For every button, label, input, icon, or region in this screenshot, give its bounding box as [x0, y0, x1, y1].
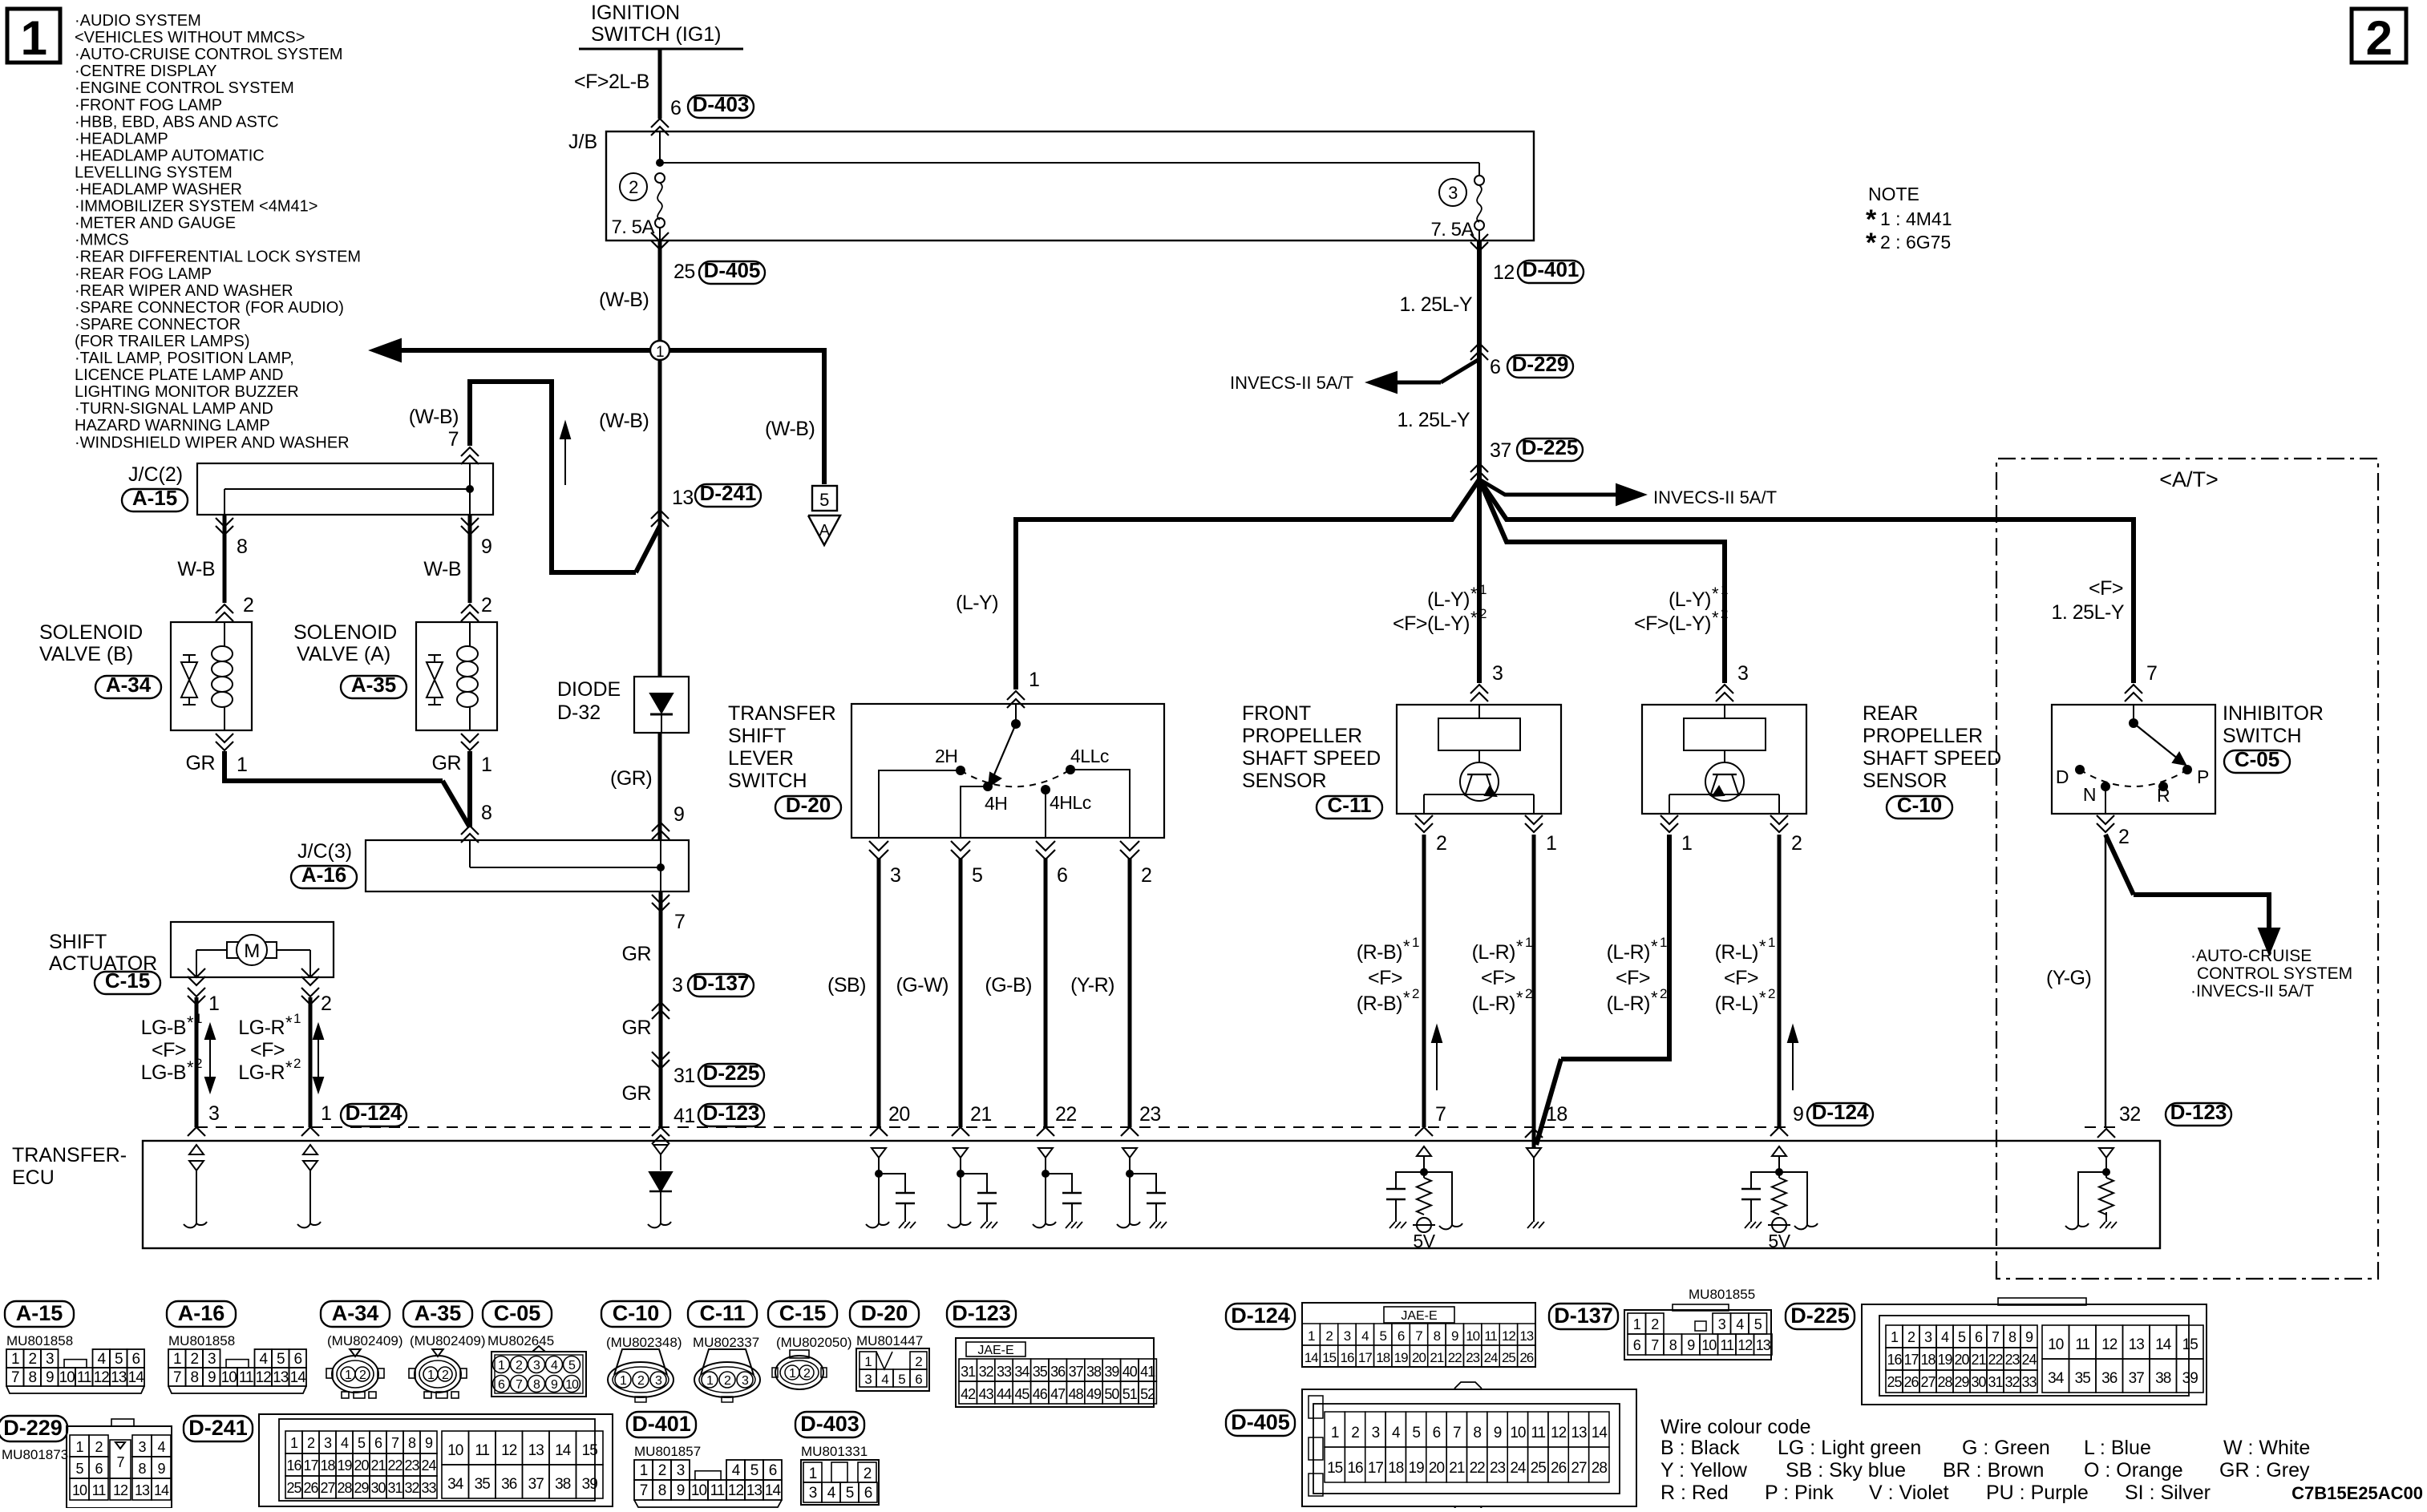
svg-text:HAZARD WARNING LAMP: HAZARD WARNING LAMP: [75, 417, 270, 435]
svg-text:A-35: A-35: [351, 673, 396, 697]
svg-text:44: 44: [997, 1386, 1012, 1402]
svg-text:·FRONT FOG LAMP: ·FRONT FOG LAMP: [75, 96, 222, 114]
svg-text:(W-B): (W-B): [599, 410, 649, 432]
svg-text:5: 5: [1754, 1316, 1762, 1332]
svg-text:1: 1: [1721, 582, 1728, 597]
svg-text:12: 12: [501, 1442, 517, 1459]
C-10 transistor: [1705, 762, 1744, 801]
svg-text:(R-B): (R-B): [1357, 941, 1402, 964]
svg-text:2: 2: [293, 1056, 301, 1071]
connector drawing C-05: [483, 1301, 552, 1327]
svg-text:18: 18: [1388, 1460, 1404, 1477]
svg-text:7: 7: [516, 1378, 523, 1392]
svg-text:LG-B: LG-B: [141, 1061, 186, 1084]
C-10 pin 1 output: [1660, 815, 1678, 824]
svg-text:37: 37: [528, 1476, 544, 1493]
svg-text:2: 2: [195, 1056, 202, 1071]
ECU internal sensor-switch pin: [953, 1148, 968, 1158]
svg-text:17: 17: [1903, 1352, 1919, 1368]
svg-text:1: 1: [321, 1102, 331, 1125]
svg-text:14: 14: [555, 1442, 572, 1459]
svg-text:29: 29: [1954, 1374, 1969, 1390]
svg-text:4: 4: [1361, 1328, 1369, 1344]
svg-text:1: 1: [1479, 582, 1487, 597]
svg-text:PROPELLER: PROPELLER: [1863, 725, 1983, 747]
svg-text:6: 6: [1490, 356, 1500, 378]
svg-text:SHIFT: SHIFT: [728, 725, 786, 747]
svg-text:13: 13: [528, 1442, 544, 1459]
connector drawing C-10: [601, 1301, 670, 1327]
svg-text:A: A: [819, 522, 831, 540]
svg-text:(L-Y): (L-Y): [1427, 588, 1470, 611]
svg-text:W-B: W-B: [177, 558, 215, 580]
wire node1 to offpage 5A: [669, 350, 824, 484]
svg-text:(L-R): (L-R): [1472, 993, 1515, 1015]
inhibitor dashed arc: [2080, 770, 2187, 786]
svg-text:DIODE: DIODE: [557, 678, 621, 701]
svg-text:(MU802348): (MU802348): [606, 1335, 682, 1350]
svg-text:32: 32: [2004, 1374, 2020, 1390]
svg-text:Y : Yellow: Y : Yellow: [1660, 1459, 1748, 1482]
svg-text:1: 1: [208, 993, 219, 1015]
svg-text:7: 7: [1651, 1337, 1659, 1353]
connector drawing D-229: [0, 1416, 67, 1441]
svg-text:3: 3: [533, 1359, 540, 1373]
ECU internal actuator pin: [189, 1145, 204, 1154]
svg-text:6: 6: [95, 1461, 103, 1477]
svg-text:25: 25: [1502, 1350, 1515, 1365]
svg-text:C-11: C-11: [699, 1301, 745, 1325]
svg-text:J/B: J/B: [568, 131, 597, 153]
svg-text:1. 25L-Y: 1. 25L-Y: [2051, 601, 2124, 624]
svg-text:A-16: A-16: [301, 863, 346, 887]
svg-text:9: 9: [481, 536, 491, 558]
svg-text:33: 33: [421, 1480, 436, 1496]
svg-text:·MMCS: ·MMCS: [75, 232, 129, 249]
svg-text:C7B15E25AC00: C7B15E25AC00: [2291, 1483, 2423, 1503]
svg-text:4HLc: 4HLc: [1050, 792, 1091, 813]
svg-text:R: R: [2157, 785, 2170, 806]
svg-text:GR: GR: [622, 1017, 652, 1039]
svg-text:MU801331: MU801331: [801, 1444, 868, 1459]
svg-text:A-15: A-15: [132, 486, 177, 510]
C-10 inner bottom bus: [1669, 794, 1779, 795]
svg-text:*: *: [1712, 608, 1719, 628]
svg-text:J/C(2): J/C(2): [128, 463, 183, 486]
svg-text:3: 3: [864, 1372, 872, 1387]
svg-text:10: 10: [2048, 1336, 2064, 1353]
svg-text:1: 1: [195, 1011, 202, 1026]
svg-text:·SPARE CONNECTOR: ·SPARE CONNECTOR: [75, 316, 241, 334]
svg-text:1: 1: [656, 344, 664, 361]
svg-text:7: 7: [1453, 1425, 1461, 1441]
svg-text:11: 11: [1531, 1425, 1545, 1441]
wire W-B backbone: [658, 360, 662, 677]
svg-text:·REAR WIPER AND WASHER: ·REAR WIPER AND WASHER: [75, 282, 293, 300]
svg-text:31: 31: [387, 1480, 402, 1496]
svg-text:11: 11: [710, 1482, 725, 1499]
svg-text:*: *: [1516, 988, 1523, 1008]
svg-text:2: 2: [359, 1368, 366, 1382]
svg-text:5: 5: [1412, 1425, 1420, 1441]
svg-text:W : White: W : White: [2223, 1437, 2310, 1459]
svg-text:41: 41: [1140, 1364, 1155, 1380]
switch output pins 3 5 6 2: [869, 841, 888, 851]
svg-text:12: 12: [1493, 261, 1515, 284]
svg-text:24: 24: [1484, 1350, 1498, 1365]
svg-text:SENSOR: SENSOR: [1863, 770, 1948, 792]
svg-text:31: 31: [673, 1065, 695, 1087]
svg-text:2: 2: [915, 1354, 922, 1369]
up arrow beside hook: [564, 427, 566, 485]
svg-text:37: 37: [2129, 1370, 2145, 1387]
svg-text:D-229: D-229: [3, 1416, 63, 1440]
svg-text:(MU802409): (MU802409): [410, 1333, 486, 1348]
svg-text:10: 10: [565, 1378, 579, 1392]
svg-text:<F>: <F>: [1616, 967, 1650, 989]
svg-text:18: 18: [320, 1457, 335, 1474]
svg-text:33: 33: [997, 1364, 1012, 1380]
svg-text:2: 2: [1721, 606, 1728, 621]
svg-text:26: 26: [1551, 1460, 1567, 1477]
svg-text:14: 14: [1592, 1425, 1608, 1441]
svg-text:12: 12: [1551, 1425, 1567, 1441]
svg-text:24: 24: [1510, 1460, 1527, 1477]
svg-text:1: 1: [427, 1368, 435, 1382]
svg-text:5: 5: [898, 1372, 905, 1387]
svg-text:12: 12: [1502, 1328, 1515, 1344]
svg-text:D-32: D-32: [557, 701, 601, 724]
connector drawing D-137: [1549, 1304, 1618, 1329]
svg-text:(L-R): (L-R): [1607, 993, 1650, 1015]
svg-text:MU802645: MU802645: [487, 1333, 554, 1348]
svg-text:<F>: <F>: [2089, 577, 2123, 600]
svg-text:13: 13: [2129, 1336, 2145, 1353]
inhibitor pivot and arm: [2129, 718, 2138, 728]
svg-text:6: 6: [1398, 1328, 1405, 1344]
svg-text:36: 36: [2101, 1370, 2118, 1387]
svg-text:(R-L): (R-L): [1715, 941, 1758, 964]
svg-text:12: 12: [2101, 1336, 2118, 1353]
switch contacts: [956, 766, 965, 775]
svg-text:1: 1: [1660, 935, 1667, 950]
svg-text:17: 17: [303, 1457, 318, 1474]
svg-text:6: 6: [864, 1485, 872, 1502]
svg-text:3: 3: [208, 1102, 219, 1125]
svg-text:18: 18: [1546, 1103, 1567, 1126]
svg-text:*: *: [285, 1057, 293, 1077]
svg-text:10: 10: [691, 1482, 707, 1499]
svg-text:D-123: D-123: [952, 1301, 1011, 1325]
svg-text:20: 20: [354, 1457, 369, 1474]
svg-text:C-10: C-10: [1897, 793, 1942, 817]
svg-text:*: *: [1712, 584, 1719, 604]
svg-text:33: 33: [2021, 1374, 2037, 1390]
svg-text:7. 5A: 7. 5A: [611, 216, 654, 238]
svg-text:16: 16: [286, 1457, 301, 1474]
svg-text:3: 3: [1718, 1316, 1726, 1332]
svg-text:3: 3: [46, 1351, 54, 1368]
svg-text:6: 6: [1433, 1425, 1441, 1441]
ECU internal pin 32 resistor: [2099, 1148, 2114, 1158]
branch to D-20 switch: [1016, 479, 1479, 689]
svg-text:1: 1: [1768, 935, 1775, 950]
svg-text:1: 1: [173, 1351, 181, 1368]
J/C(2) pin 8 output: [216, 518, 233, 527]
svg-text:2: 2: [629, 177, 638, 197]
up-down arrow 2: [318, 1031, 319, 1085]
connector drawing D-123: [947, 1301, 1016, 1327]
svg-text:5V: 5V: [1768, 1231, 1790, 1251]
svg-text:8: 8: [533, 1378, 540, 1392]
C-11 transistor: [1460, 762, 1499, 801]
svg-text:10: 10: [1510, 1425, 1526, 1441]
ECU pin 18: [1525, 1129, 1543, 1138]
svg-text:1: 1: [1633, 1316, 1641, 1332]
svg-text:·HEADLAMP: ·HEADLAMP: [75, 130, 168, 148]
svg-text:3: 3: [324, 1435, 332, 1451]
C-11 inner element: [1438, 718, 1520, 750]
svg-text:(W-B): (W-B): [409, 406, 459, 428]
svg-text:10: 10: [221, 1369, 237, 1386]
svg-text:D-20: D-20: [861, 1301, 908, 1325]
svg-text:14: 14: [128, 1369, 145, 1386]
svg-text:2 : 6G75: 2 : 6G75: [1880, 232, 1951, 253]
page marker 1: [7, 9, 60, 63]
wire into J/B: [659, 131, 661, 163]
svg-text:(G-W): (G-W): [896, 974, 949, 997]
svg-text:SWITCH: SWITCH: [728, 770, 807, 792]
svg-text:14: 14: [290, 1369, 307, 1386]
svg-text:2: 2: [2118, 826, 2129, 848]
svg-text:1: 1: [11, 1351, 19, 1368]
svg-text:SI : Silver: SI : Silver: [2125, 1482, 2211, 1504]
branch to inhibitor switch: [1479, 479, 2134, 585]
svg-text:D-123: D-123: [703, 1101, 760, 1125]
svg-text:C-10: C-10: [613, 1301, 660, 1325]
ECU internal actuator pin: [303, 1145, 318, 1154]
svg-text:(Y-R): (Y-R): [1070, 974, 1114, 997]
svg-text:30: 30: [1971, 1374, 1986, 1390]
svg-text:V : Violet: V : Violet: [1869, 1482, 1949, 1504]
svg-text:12: 12: [113, 1482, 128, 1498]
svg-text:4H: 4H: [985, 793, 1007, 814]
C-11 inner bottom bus: [1424, 794, 1534, 795]
svg-text:28: 28: [1937, 1374, 1952, 1390]
svg-text:7: 7: [1992, 1329, 2000, 1345]
svg-text:2: 2: [321, 993, 331, 1015]
svg-text:8: 8: [1669, 1337, 1677, 1353]
svg-text:11: 11: [77, 1369, 91, 1386]
svg-text:LG : Light green: LG : Light green: [1778, 1437, 1921, 1459]
svg-text:A-35: A-35: [415, 1301, 462, 1325]
svg-text:LG-R: LG-R: [238, 1061, 285, 1084]
svg-text:9: 9: [1793, 1103, 1803, 1126]
junction connector J/C(2) A-15: [197, 463, 493, 515]
svg-text:<F>(L-Y): <F>(L-Y): [1634, 612, 1711, 635]
svg-text:41: 41: [673, 1105, 695, 1127]
svg-text:(GR): (GR): [610, 767, 652, 790]
svg-text:20: 20: [888, 1103, 910, 1126]
svg-text:27: 27: [320, 1480, 335, 1496]
svg-text:4: 4: [1736, 1316, 1744, 1332]
svg-text:(Y-G): (Y-G): [2046, 967, 2091, 989]
valve A GR wire: [467, 751, 472, 827]
svg-text:·AUDIO SYSTEM: ·AUDIO SYSTEM: [75, 12, 201, 30]
svg-text:8: 8: [658, 1482, 666, 1499]
svg-text:12: 12: [1737, 1337, 1753, 1353]
svg-text:13: 13: [1519, 1328, 1533, 1344]
svg-text:(L-Y): (L-Y): [1669, 588, 1711, 611]
svg-text:6: 6: [498, 1378, 505, 1392]
ECU internal sensor-switch pin: [1038, 1148, 1053, 1158]
svg-text:D-401: D-401: [1523, 257, 1580, 281]
svg-text:1: 1: [1681, 832, 1692, 855]
svg-text:14: 14: [1305, 1350, 1318, 1365]
svg-text:1. 25L-Y: 1. 25L-Y: [1397, 409, 1470, 431]
svg-text:5: 5: [358, 1435, 366, 1451]
offpage connector 5 A: [812, 486, 837, 511]
ECU internal sensor-switch pin: [872, 1148, 886, 1158]
svg-text:INVECS-II 5A/T: INVECS-II 5A/T: [1230, 373, 1353, 393]
connector drawing D-225: [1786, 1304, 1855, 1329]
svg-text:1: 1: [1308, 1328, 1315, 1344]
svg-text:16: 16: [1887, 1352, 1902, 1368]
svg-text:39: 39: [2182, 1370, 2198, 1387]
svg-text:REAR: REAR: [1863, 702, 1918, 725]
svg-text:18: 18: [1376, 1350, 1389, 1365]
svg-text:39: 39: [582, 1476, 598, 1493]
svg-text:4: 4: [1392, 1425, 1401, 1441]
svg-text:GR : Grey: GR : Grey: [2219, 1459, 2310, 1482]
svg-text:2: 2: [28, 1351, 36, 1368]
svg-text:23: 23: [1139, 1103, 1161, 1126]
coil A: [457, 646, 478, 661]
svg-text:4: 4: [341, 1435, 349, 1451]
inhibitor output wire (Y-G): [2105, 835, 2106, 1127]
svg-text:*: *: [1516, 936, 1523, 956]
valve symbol B: [183, 654, 196, 656]
svg-text:10: 10: [72, 1482, 87, 1498]
svg-text:·AUTO-CRUISE: ·AUTO-CRUISE: [2190, 947, 2312, 965]
svg-text:5: 5: [1379, 1328, 1386, 1344]
svg-text:27: 27: [1920, 1374, 1936, 1390]
svg-text:19: 19: [1409, 1460, 1425, 1477]
svg-text:13: 13: [1571, 1425, 1587, 1441]
svg-text:2: 2: [1907, 1329, 1915, 1345]
svg-text:34: 34: [447, 1476, 464, 1493]
svg-text:16: 16: [1347, 1460, 1363, 1477]
svg-text:1: 1: [1525, 935, 1532, 950]
svg-text:*: *: [1651, 936, 1658, 956]
contact dashed arc: [961, 770, 1070, 786]
svg-text:LG-R: LG-R: [238, 1017, 285, 1039]
svg-text:1: 1: [1029, 669, 1039, 691]
svg-text:MU802337: MU802337: [693, 1335, 759, 1350]
svg-text:GR: GR: [622, 1082, 652, 1105]
svg-text:C-05: C-05: [2235, 747, 2279, 771]
svg-text:TRANSFER: TRANSFER: [728, 702, 836, 725]
node 1 junction: [650, 341, 669, 360]
up-down arrow 1: [209, 1031, 211, 1085]
switch pivot and arm: [1011, 719, 1021, 729]
svg-text:4: 4: [1941, 1329, 1949, 1345]
svg-text:3: 3: [1372, 1425, 1380, 1441]
svg-text:6: 6: [1057, 864, 1067, 887]
svg-text:3: 3: [1737, 662, 1748, 685]
transfer shift lever switch box: [851, 704, 1164, 838]
svg-text:·AUTO-CRUISE CONTROL SYSTEM: ·AUTO-CRUISE CONTROL SYSTEM: [75, 46, 342, 63]
svg-text:36: 36: [1050, 1364, 1066, 1380]
connector drawing A-15: [5, 1301, 74, 1327]
wire 1.25L-Y: [1477, 241, 1482, 479]
svg-text:(R-B): (R-B): [1357, 993, 1402, 1015]
svg-text:(L-R): (L-R): [1607, 941, 1650, 964]
svg-text:8: 8: [1434, 1328, 1441, 1344]
svg-text:6: 6: [374, 1435, 382, 1451]
svg-text:(MU802409): (MU802409): [327, 1333, 403, 1348]
svg-text:5V: 5V: [1413, 1231, 1435, 1251]
junction connector J/C(3) A-16: [461, 826, 479, 835]
svg-text:SHAFT SPEED: SHAFT SPEED: [1242, 747, 1381, 770]
motor M: [227, 942, 277, 958]
svg-text:4: 4: [259, 1351, 268, 1368]
ECU pin 9 D-124: [1770, 1127, 1788, 1136]
svg-text:1: 1: [1891, 1329, 1899, 1345]
svg-text:C-05: C-05: [494, 1301, 541, 1325]
svg-text:SHIFT: SHIFT: [49, 931, 107, 953]
svg-text:·TURN-SIGNAL LAMP AND: ·TURN-SIGNAL LAMP AND: [75, 400, 273, 418]
svg-text:G : Green: G : Green: [1962, 1437, 2050, 1459]
svg-text:W-B: W-B: [423, 558, 461, 580]
svg-text:3: 3: [138, 1439, 146, 1455]
svg-text:MU801857: MU801857: [634, 1444, 701, 1459]
svg-text:*: *: [1470, 584, 1478, 604]
svg-text:·REAR FOG LAMP: ·REAR FOG LAMP: [75, 265, 212, 283]
svg-text:8: 8: [237, 536, 247, 558]
svg-text:24: 24: [421, 1457, 436, 1474]
svg-text:SWITCH (IG1): SWITCH (IG1): [591, 23, 722, 46]
svg-text:SENSOR: SENSOR: [1242, 770, 1327, 792]
svg-text:9: 9: [551, 1378, 558, 1392]
valve A pin 1: [461, 734, 479, 742]
svg-text:(W-B): (W-B): [765, 418, 815, 440]
svg-text:D-229: D-229: [1512, 352, 1569, 376]
fuse 3 (7.5A): [1439, 179, 1466, 206]
svg-text:3: 3: [1924, 1329, 1932, 1345]
svg-text:*: *: [187, 1057, 194, 1077]
svg-text:46: 46: [1033, 1386, 1048, 1402]
svg-text:4: 4: [157, 1439, 165, 1455]
svg-text:19: 19: [337, 1457, 352, 1474]
svg-text:8: 8: [1473, 1425, 1481, 1441]
svg-text:2: 2: [307, 1435, 315, 1451]
svg-text:SB : Sky blue: SB : Sky blue: [1786, 1459, 1906, 1482]
svg-text:4LLc: 4LLc: [1070, 746, 1109, 766]
svg-text:FRONT: FRONT: [1242, 702, 1311, 725]
svg-text:19: 19: [1394, 1350, 1408, 1365]
wire node1 to left arrow: [401, 348, 650, 353]
svg-text:9: 9: [1451, 1328, 1458, 1344]
svg-text:50: 50: [1104, 1386, 1119, 1402]
connector drawing C-15: [768, 1301, 837, 1327]
svg-text:9: 9: [157, 1461, 165, 1477]
svg-text:14: 14: [2155, 1336, 2172, 1353]
svg-text:5: 5: [568, 1359, 576, 1373]
svg-text:1: 1: [706, 1374, 714, 1388]
connector drawing A-34: [321, 1301, 390, 1327]
svg-text:15: 15: [2182, 1336, 2198, 1353]
